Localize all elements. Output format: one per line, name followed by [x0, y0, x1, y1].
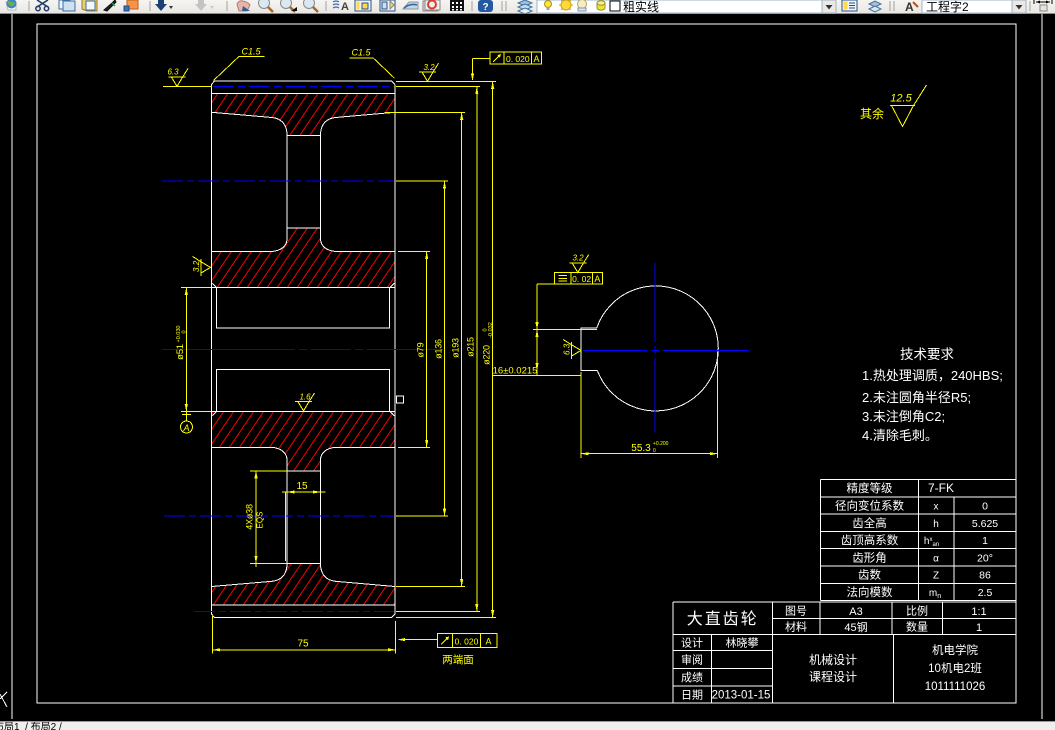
title block grid [673, 602, 1016, 703]
svg-text:齿全高: 齿全高 [852, 515, 887, 531]
hub outer bottom line [212, 447, 396, 459]
svg-text:课程设计: 课程设计 [809, 668, 857, 685]
table row radial shift coeff x 0 [835, 497, 988, 513]
chamfer label C1.5 left [214, 47, 265, 81]
svg-text:径向变位系数: 径向变位系数 [835, 497, 904, 513]
table row normal module 2.5 [847, 584, 993, 600]
svg-text:x: x [934, 501, 939, 512]
tech req item 4 [862, 425, 938, 444]
row reviewer [681, 652, 703, 668]
svg-text:20°: 20° [977, 552, 993, 564]
svg-text:1011111026: 1011111026 [925, 681, 986, 693]
svg-text:6.3: 6.3 [563, 343, 572, 355]
toolbar icon: layer states [869, 1, 881, 12]
svg-text:12.5: 12.5 [890, 93, 912, 105]
toolbar icon: cut scissors [36, 0, 49, 11]
row drawing no A3 scale 1:1 [785, 603, 987, 619]
svg-text:大直齿轮: 大直齿轮 [687, 605, 759, 629]
svg-text:16±0.0215: 16±0.0215 [493, 366, 538, 377]
label both end faces [442, 652, 474, 667]
svg-text:4Xø38: 4Xø38 [245, 504, 255, 530]
runout tolerance frame 0.020 A (top) [471, 52, 542, 81]
ext line rim inner bottom [396, 586, 465, 588]
gear parameter table grid [821, 480, 1017, 601]
hatch lower hub/web band [212, 412, 396, 471]
toolbar icon: pan hand [237, 1, 250, 11]
svg-text:?: ? [482, 2, 488, 13]
svg-text:+0.200: +0.200 [653, 441, 669, 447]
ext line hub bottom [398, 446, 430, 448]
ext line tip dia bottom [396, 617, 496, 619]
svg-text:75: 75 [297, 639, 309, 650]
roughness 1.6 in keyway bottom [295, 393, 315, 412]
svg-text:成绩: 成绩 [681, 669, 703, 685]
svg-text:3.2: 3.2 [192, 260, 201, 272]
svg-text:工程字2: 工程字2 [926, 0, 969, 14]
table row teeth number Z 86 [858, 567, 991, 583]
row date 2013-01-15 [681, 687, 770, 703]
bore chamfer diagonals [212, 283, 396, 416]
svg-text:C1.5: C1.5 [241, 47, 261, 57]
dimension phi220 with tolerance [482, 81, 495, 617]
svg-text:2.未注圆角半径R5;: 2.未注圆角半径R5; [862, 387, 971, 406]
svg-text:粗实线: 粗实线 [623, 0, 659, 14]
tech req item 1 [862, 365, 1003, 384]
svg-text:0. 02: 0. 02 [572, 274, 591, 284]
symmetry tolerance frame 0.02 A [537, 273, 603, 285]
ext line hub top [398, 251, 430, 253]
keyway far-side upper rectangle [217, 288, 390, 329]
svg-text:3.2: 3.2 [423, 63, 435, 72]
svg-text:45钢: 45钢 [844, 619, 867, 635]
web hole lower: top and bottom edges [287, 471, 321, 564]
toolbar icon: sheet set manager [403, 2, 418, 9]
svg-text:1: 1 [982, 535, 988, 547]
dimension 75 overall width [213, 616, 396, 653]
gear left face line [211, 85, 213, 615]
svg-text:0: 0 [182, 330, 188, 333]
rim inner bottom edge [212, 566, 396, 587]
dimension 55.3 keyway depth [581, 352, 717, 458]
toolbar icon: text style [905, 0, 918, 14]
svg-text:审阅: 审阅 [681, 652, 703, 668]
svg-text:1.热处理调质，240HBS;: 1.热处理调质，240HBS; [862, 365, 1003, 384]
svg-text:0. 020: 0. 020 [506, 54, 530, 64]
toolbar icon: redo arrow gray [195, 0, 207, 11]
toolbar icon: layers stack [518, 0, 532, 14]
table row whole depth h 5.625 [852, 515, 998, 531]
toolbar icon: help [478, 0, 493, 13]
svg-text:-0.032: -0.032 [488, 322, 494, 338]
toolbar icon: dimension style [1034, 0, 1052, 11]
svg-text:两端面: 两端面 [442, 652, 474, 667]
row grade [681, 669, 703, 685]
svg-text:齿顶高系数: 齿顶高系数 [841, 532, 899, 548]
ext line pitch dia bottom [396, 611, 480, 613]
toolbar icon: markup red [423, 0, 440, 11]
svg-text:A: A [594, 274, 600, 284]
svg-text:技术要求: 技术要求 [900, 343, 954, 363]
svg-text:EQS: EQS [256, 512, 265, 529]
table row addendum coeff 1 [841, 532, 988, 548]
svg-text:ø51: ø51 [175, 344, 186, 360]
ext line hole centerline bottom [396, 515, 448, 517]
dimension 4x phi38 web holes [245, 471, 288, 567]
svg-text:ø220: ø220 [482, 345, 492, 365]
svg-text:ø215: ø215 [466, 337, 476, 357]
toolbar icon: block editor orange [124, 0, 138, 11]
svg-text:A: A [485, 637, 491, 647]
svg-text:设计: 设计 [681, 635, 703, 651]
center cell course design [809, 651, 857, 685]
dimension phi51 bore [175, 288, 211, 412]
bore top line [212, 287, 396, 289]
toolbar icon: paste clipboard [82, 0, 97, 11]
toolbar icon: find text [333, 1, 349, 13]
outer sheet border left [11, 14, 13, 719]
svg-text:3.2: 3.2 [572, 254, 584, 263]
svg-text:齿形角: 齿形角 [852, 549, 887, 565]
web hole upper: side walls [287, 133, 321, 240]
technical requirements title [900, 343, 954, 363]
side view bore circle with keyway [581, 286, 718, 411]
gear tip bottom line with chamfers [212, 614, 396, 618]
svg-text:A: A [341, 1, 349, 13]
svg-text:2013-01-15: 2013-01-15 [712, 690, 771, 702]
lower web hole centerline (blue) [164, 515, 394, 517]
hatch rim bottom band [212, 563, 396, 605]
svg-text:日期: 日期 [681, 687, 703, 703]
dimension 15 web thickness [282, 481, 326, 561]
table row accuracy grade 7-FK [847, 480, 955, 496]
gear axis centerline (blue) [162, 348, 443, 350]
svg-text:C1.5: C1.5 [351, 48, 371, 58]
chamfer label C1.5 right [350, 48, 395, 79]
dimension phi136 [434, 181, 447, 516]
svg-text:ø79: ø79 [416, 342, 426, 357]
title: part name big spur gear [687, 605, 759, 629]
svg-text:A: A [905, 0, 914, 14]
svg-text:0: 0 [982, 500, 988, 512]
svg-text:A: A [533, 54, 539, 64]
right cell school class id [925, 642, 986, 693]
svg-text:4.清除毛刺。: 4.清除毛刺。 [862, 425, 938, 444]
svg-text:h: h [933, 519, 939, 530]
svg-text:ø136: ø136 [434, 339, 444, 359]
rim inner top edge [212, 112, 396, 133]
UCS icon fragment bottom-left [0, 692, 7, 707]
toolbar icon: layer properties [842, 0, 857, 11]
gear right face line [394, 85, 396, 615]
svg-text:6.3: 6.3 [167, 68, 179, 77]
svg-text:A: A [182, 423, 189, 433]
runout tolerance frame 0.020 A (bottom faces) [398, 633, 498, 647]
ext line hole centerline top [396, 180, 448, 182]
svg-text:15: 15 [296, 481, 308, 492]
tech req item 3 [862, 406, 945, 425]
dimension phi79 [416, 252, 429, 448]
toolbar icon: quickcalc [450, 0, 464, 11]
svg-text:林晓攀: 林晓攀 [726, 635, 759, 651]
root line top [212, 93, 396, 95]
keyway far-side lower rectangle [217, 370, 390, 412]
toolbar icon: publish globe [6, 0, 17, 10]
svg-text:Z: Z [933, 571, 939, 582]
web hole lower: side walls [287, 459, 321, 566]
pitch line top (blue) [213, 86, 394, 88]
hub outer top line [212, 240, 396, 252]
svg-text:α: α [933, 553, 939, 564]
svg-text:5.625: 5.625 [972, 518, 998, 530]
toolbar icon: properties palette [355, 0, 371, 11]
svg-text:7-FK: 7-FK [928, 481, 954, 495]
pitch line bottom (blue) [194, 611, 394, 613]
toolbar icon: match properties brush [104, 0, 116, 11]
hatch rim top band [212, 94, 396, 136]
svg-text:3.未注倒角C2;: 3.未注倒角C2; [862, 406, 945, 425]
svg-text:2.5: 2.5 [978, 587, 993, 599]
svg-text:图号: 图号 [785, 603, 807, 619]
svg-text:机械设计: 机械设计 [809, 651, 857, 668]
row material 45 steel qty 1 [785, 619, 982, 636]
svg-text:比例: 比例 [906, 603, 928, 619]
gear tip top line with chamfers [212, 81, 396, 85]
svg-text:1.6: 1.6 [299, 393, 311, 402]
svg-text:机电学院: 机电学院 [932, 642, 978, 658]
svg-text:0. 020: 0. 020 [455, 637, 479, 647]
outer sheet border right [1041, 14, 1043, 719]
datum A symbol [181, 412, 193, 434]
svg-text:精度等级: 精度等级 [847, 480, 893, 496]
ext line pitch dia top [396, 86, 480, 88]
toolbar icon: zoom realtime [259, 0, 274, 12]
dimension 16 keyway width [493, 284, 597, 377]
layer combobox [537, 0, 836, 15]
toolbar icon: zoom previous [304, 0, 319, 12]
side view horizontal centerline (blue) [583, 349, 749, 351]
toolbar icon: design center [380, 0, 395, 11]
small grip square on right face [397, 396, 404, 403]
svg-text:ø193: ø193 [451, 338, 461, 358]
roughness 3.2 on left face (rotated) [192, 256, 211, 276]
hatch upper hub/web band [212, 228, 396, 288]
toolbar icon: undo arrow [155, 0, 167, 11]
web hole upper: top and bottom edges [287, 136, 321, 229]
root line bottom [212, 604, 396, 606]
svg-text:其余: 其余 [860, 105, 884, 122]
upper web hole centerline (blue) [162, 180, 394, 182]
toolbar icon: zoom window [281, 0, 298, 12]
table row pressure angle 20 [852, 549, 993, 565]
svg-text:0: 0 [653, 448, 656, 454]
svg-text:86: 86 [979, 570, 991, 582]
dimension phi193 [451, 112, 464, 586]
tech req item 2 [862, 387, 971, 406]
row designer name [681, 635, 759, 651]
ext line tip dia top [396, 80, 496, 82]
roughness 3.2 above symmetry frame [569, 254, 589, 273]
svg-text:55.3: 55.3 [631, 443, 651, 454]
roughness 6.3 top left on pitch extension [163, 68, 212, 87]
svg-text:数量: 数量 [906, 619, 928, 635]
svg-text:1: 1 [976, 622, 982, 634]
roughness 3.2 on tip extension [419, 63, 439, 81]
svg-text:1:1: 1:1 [971, 606, 986, 618]
general roughness note 12.5 (rest) [860, 85, 927, 127]
svg-text:材料: 材料 [785, 619, 807, 635]
toolbar dropdown tick small [169, 6, 173, 9]
side view vertical centerline (blue) [654, 263, 656, 433]
svg-text:A3: A3 [849, 606, 862, 618]
svg-text:10机电2班: 10机电2班 [928, 660, 982, 676]
svg-text:法向模数: 法向模数 [847, 584, 893, 600]
dimension phi215 [466, 87, 479, 612]
svg-text:齿数: 齿数 [858, 567, 881, 583]
roughness 6.3 on keyway flat (rotated) [563, 339, 582, 359]
ext line rim inner top [385, 111, 465, 113]
text style combobox [922, 0, 1026, 15]
bore bottom line [212, 411, 396, 413]
toolbar icon: copy [59, 0, 75, 11]
